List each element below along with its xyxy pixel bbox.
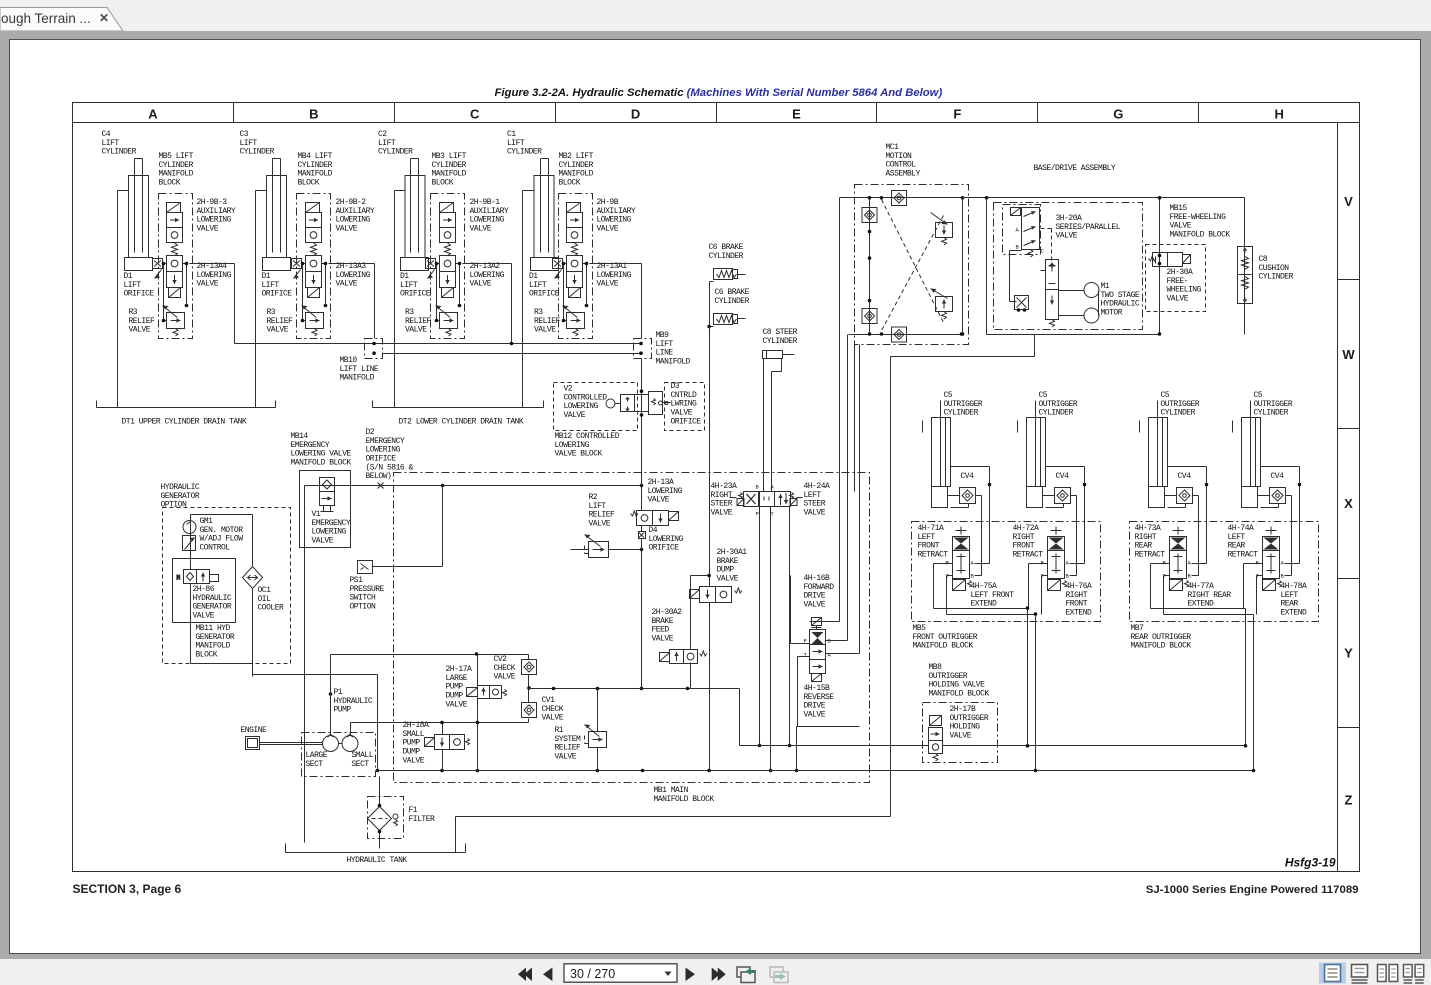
svg-text:VALVE: VALVE [950,732,972,741]
svg-text:LOWERING: LOWERING [336,271,371,280]
wire R1 drop [597,689,599,771]
svg-text:LIFT: LIFT [656,340,674,349]
svg-text:MANIFOLD BLOCK: MANIFOLD BLOCK [1170,231,1231,240]
svg-text:A: A [1016,227,1020,234]
svg-text:RELIEF: RELIEF [129,317,156,326]
wire generator loop [191,515,253,677]
svg-text:VALVE: VALVE [564,411,586,420]
valve 2H-13A4 (lowering) [167,256,183,298]
manifold block MB2 [559,194,593,339]
svg-text:GENERATOR: GENERATOR [196,633,235,642]
svg-text:M1: M1 [1101,282,1110,291]
svg-text:T: T [804,652,808,659]
svg-text:CYLINDER: CYLINDER [944,409,979,418]
wire manifold right rail [325,264,327,306]
svg-text:DUMP: DUMP [403,748,421,757]
svg-text:R1: R1 [555,726,564,735]
svg-text:CONTROLLED: CONTROLLED [564,393,608,402]
svg-text:4H-76A: 4H-76A [1066,582,1093,591]
svg-text:RIGHT: RIGHT [1135,533,1157,542]
wire 2H-13A2 output [463,263,512,265]
svg-text:V: V [1344,194,1353,209]
svg-text:A: A [828,652,832,659]
svg-text:D3: D3 [671,382,680,391]
wire drive return [891,198,1035,357]
svg-text:LIFT: LIFT [378,139,396,148]
svg-text:OIL: OIL [258,595,272,604]
check valve CV2 [522,660,537,675]
svg-text:PS1: PS1 [350,576,364,585]
outrigger cylinder C5 (4H-73A) [1140,401,1168,508]
svg-text:D1: D1 [529,272,538,281]
svg-text:MB1 MAIN: MB1 MAIN [654,786,689,795]
svg-text:LEFT: LEFT [1281,591,1299,600]
svg-text:B: B [1016,244,1020,251]
wire brake dump [691,576,710,771]
svg-text:MB4 LIFT: MB4 LIFT [298,152,333,161]
wire return header y770 [378,770,1254,772]
svg-text:CONTROL: CONTROL [200,544,231,553]
svg-text:2H-9B: 2H-9B [597,198,619,207]
svg-text:C1: C1 [507,130,516,139]
svg-text:BLOCK: BLOCK [432,179,454,188]
svg-text:MANIFOLD: MANIFOLD [559,170,594,179]
wire 2H-13A1 output [590,263,642,265]
svg-text:BELOW): BELOW) [366,472,392,481]
svg-text:CV4: CV4 [1056,472,1070,481]
svg-text:VALVE: VALVE [534,326,556,335]
wire pilot dashed [1041,229,1052,271]
svg-text:VALVE: VALVE [470,225,492,234]
valve 2H-17A large pump dump [467,686,507,699]
svg-text:ORIFICE: ORIFICE [262,290,293,299]
outrigger cylinder C5 (4H-71A) [923,401,951,508]
toolbar prev-page button [543,968,552,982]
hydraulic generator option box [163,508,291,664]
svg-text:RELIEF: RELIEF [534,317,561,326]
tank DT1 upper cylinder drain [97,401,276,408]
svg-text:LOWERING: LOWERING [470,216,505,225]
svg-text:A: A [148,107,158,122]
valve 2H-13A2 (lowering) [440,256,456,298]
valve 2H-18A small pump dump [425,735,470,750]
svg-text:MANIFOLD BLOCK: MANIFOLD BLOCK [654,795,715,804]
valve 4H-72A retract [1048,491,1067,591]
valve 2H-13A1 (lowering) [567,256,583,298]
svg-text:B: B [309,107,318,122]
svg-text:4H-73A: 4H-73A [1135,524,1162,533]
svg-text:FREE-WHEELING: FREE-WHEELING [1170,213,1227,222]
svg-text:BLOCK: BLOCK [559,179,581,188]
svg-text:EXTEND: EXTEND [1281,609,1308,618]
wire brake line [710,282,714,587]
svg-text:B: B [1188,573,1192,580]
svg-text:REAR: REAR [1135,542,1153,551]
wire manifold right rail [586,264,588,306]
svg-text:SECT: SECT [306,760,324,769]
valve 2H-9B-3 (auxiliary lowering) [167,203,183,256]
svg-text:2H-9B-1: 2H-9B-1 [470,198,501,207]
svg-text:VALVE: VALVE [589,520,611,529]
view mode facing [1378,965,1387,982]
svg-text:HYDRAULIC: HYDRAULIC [161,483,200,492]
svg-text:CV2: CV2 [494,655,508,664]
svg-text:OUTRIGGER: OUTRIGGER [1039,400,1078,409]
manifold block MB3 [431,194,465,339]
svg-text:ORIFICE: ORIFICE [529,290,560,299]
relief valve R2 lift [571,535,642,558]
svg-text:2H-17A: 2H-17A [446,665,473,674]
wire drive feeds [810,198,860,654]
view mode continuous [1352,965,1368,978]
svg-text:CYLINDER: CYLINDER [159,161,194,170]
svg-text:BRAKE: BRAKE [652,617,674,626]
svg-text:A: A [1188,560,1192,567]
manifold block MB5 [159,194,193,339]
svg-text:H: H [1275,107,1284,122]
wire outrigger cyl ports [1258,467,1300,576]
svg-text:RETRACT: RETRACT [918,551,949,560]
toolbar last-page button [712,968,726,982]
svg-text:VALVE: VALVE [555,753,577,762]
svg-text:T: T [771,511,775,518]
svg-text:HOLDING VALVE: HOLDING VALVE [929,681,986,690]
orifice D1 (C3) [292,259,302,279]
lift cylinder C4 [125,159,153,271]
svg-text:RELIEF: RELIEF [405,317,432,326]
svg-text:FEED: FEED [652,626,670,635]
svg-text:LOWERING: LOWERING [366,446,401,455]
relief valve R3 (MB3) [436,306,458,337]
svg-text:B: B [1281,573,1285,580]
svg-text:LOWERING: LOWERING [312,528,347,537]
wire cylinder C4 drain [118,191,129,408]
svg-text:RIGHT: RIGHT [1066,591,1088,600]
svg-text:LOWERING: LOWERING [197,216,232,225]
wire lift line through MB1 [641,473,643,689]
svg-text:B: B [756,484,760,491]
svg-text:DT1 UPPER CYLINDER DRAIN TANK: DT1 UPPER CYLINDER DRAIN TANK [122,418,247,427]
svg-text:LOWERING: LOWERING [597,216,632,225]
svg-text:Figure 3.2-2A. Hydraulic Sche: Figure 3.2-2A. Hydraulic Schematic (Mach… [495,87,943,99]
lift cylinder C1 [531,159,559,271]
svg-text:CYLINDER: CYLINDER [1254,409,1289,418]
svg-text:SJ-1000 Series Engine Powered: SJ-1000 Series Engine Powered 117089 [1146,884,1359,896]
svg-text:MOTION: MOTION [886,152,913,161]
svg-text:FRONT: FRONT [1013,542,1035,551]
svg-text:PRESSURE: PRESSURE [350,585,385,594]
motor M1 circle 2 [1084,308,1099,323]
outrigger cylinder C5 (4H-74A) [1233,401,1261,508]
svg-text:LOWERING: LOWERING [649,535,684,544]
svg-text:VALVE: VALVE [312,537,334,546]
svg-text:MB10: MB10 [340,356,358,365]
svg-text:F: F [953,107,961,122]
svg-text:2H-30A2: 2H-30A2 [652,608,683,617]
svg-text:VALVE BLOCK: VALVE BLOCK [555,450,603,459]
svg-text:VALVE: VALVE [1167,295,1189,304]
svg-text:HYDRAULIC: HYDRAULIC [334,697,373,706]
svg-text:VALVE: VALVE [446,700,468,709]
svg-text:4H-74A: 4H-74A [1228,524,1255,533]
svg-text:VALVE: VALVE [336,225,358,234]
svg-text:30 / 270: 30 / 270 [570,967,615,981]
manifold block MB4 [297,194,331,339]
svg-text:A: A [771,484,775,491]
svg-text:C3: C3 [240,130,249,139]
svg-text:EMERGENCY: EMERGENCY [366,437,405,446]
svg-text:VALVE: VALVE [197,280,219,289]
svg-text:CV4: CV4 [1271,472,1285,481]
svg-text:2H-30A: 2H-30A [1167,268,1194,277]
pump large section [323,735,339,752]
svg-text:CYLINDER: CYLINDER [763,337,798,346]
wire retract drains [1151,564,1207,615]
svg-text:C6 BRAKE: C6 BRAKE [709,243,744,252]
svg-text:LEFT: LEFT [918,533,936,542]
svg-text:C5: C5 [1039,391,1048,400]
svg-text:MB9: MB9 [656,331,670,340]
svg-text:BASE/DRIVE ASSEMBLY: BASE/DRIVE ASSEMBLY [1034,164,1116,173]
svg-text:2H-30A1: 2H-30A1 [717,548,748,557]
wire holding header y745 [740,745,1246,747]
svg-text:LIFT: LIFT [507,139,525,148]
pressure switch PS1 [358,486,443,574]
svg-text:VALVE: VALVE [711,509,733,518]
svg-text:MB5: MB5 [913,624,927,633]
svg-text:VALVE: VALVE [717,575,739,584]
toolbar first-page button [518,968,532,982]
manifold MB10 lift line [365,339,383,359]
oil cooler OC1 [243,567,263,589]
svg-text:OUTRIGGER: OUTRIGGER [1254,400,1293,409]
svg-text:2H-13A: 2H-13A [648,478,675,487]
svg-text:LEFT: LEFT [804,491,822,500]
svg-text:2H-9B-3: 2H-9B-3 [197,198,228,207]
valve 2H-30A2 brake feed [660,650,708,689]
valve 2H-30A free-wheeling [1146,245,1206,312]
svg-text:MANIFOLD BLOCK: MANIFOLD BLOCK [1131,642,1192,651]
svg-text:CYLINDER: CYLINDER [715,297,750,306]
svg-text:CUSHION: CUSHION [1259,264,1290,273]
svg-text:LIFT: LIFT [102,139,120,148]
svg-text:GENERATOR: GENERATOR [193,603,232,612]
svg-text:M: M [177,575,181,582]
svg-text:ORIFICE: ORIFICE [671,417,702,426]
svg-text:Hsfg3-19: Hsfg3-19 [1285,856,1336,870]
svg-text:LIFT: LIFT [240,139,258,148]
wire outrigger cyl ports [948,467,990,576]
svg-text:LIFT LINE: LIFT LINE [340,365,379,374]
toolbar next-page button [686,968,696,982]
svg-text:CYLINDER: CYLINDER [507,148,542,157]
svg-text:R3: R3 [267,308,276,317]
svg-text:VALVE: VALVE [193,612,215,621]
svg-text:C8: C8 [1259,255,1268,264]
svg-text:BRAKE: BRAKE [717,557,739,566]
svg-text:RETRACT: RETRACT [1135,551,1166,560]
svg-text:AUXILIARY: AUXILIARY [336,207,375,216]
svg-text:VALVE: VALVE [267,326,289,335]
svg-text:CYLINDER: CYLINDER [1259,273,1294,282]
relief valve R3 (MB4) [302,306,324,337]
svg-text:PUMP: PUMP [403,739,421,748]
svg-text:4H-23A: 4H-23A [711,482,738,491]
svg-text:OUTRIGGER: OUTRIGGER [950,714,989,723]
valve V2 controlled lowering [606,395,649,412]
svg-text:LIFT: LIFT [400,281,418,290]
svg-text:SMALL: SMALL [352,751,374,760]
svg-text:VALVE: VALVE [804,509,826,518]
svg-text:C: C [470,107,480,122]
svg-text:MB5 LIFT: MB5 LIFT [159,152,194,161]
svg-text:C5: C5 [1254,391,1263,400]
svg-text:LWRING: LWRING [671,400,698,409]
svg-text:R3: R3 [129,308,138,317]
svg-text:LIFT: LIFT [124,281,142,290]
wire orifice to valve [563,264,587,321]
svg-text:CYLINDER: CYLINDER [102,148,137,157]
wire pressure header [331,655,529,723]
wire outrigger cyl ports [1165,467,1207,576]
svg-text:VALVE: VALVE [652,635,674,644]
check valve CV1 [522,703,537,718]
svg-text:(S/N 5816 &: (S/N 5816 & [366,463,414,472]
svg-text:CV4: CV4 [1178,472,1192,481]
svg-text:C2: C2 [378,130,387,139]
svg-text:VALVE: VALVE [542,714,564,723]
check valve (MC1 top) [892,191,907,206]
svg-text:BLOCK: BLOCK [298,179,320,188]
svg-text:REAR: REAR [1228,542,1246,551]
cushion cylinder C8 [1238,247,1253,304]
svg-text:LOWERING: LOWERING [597,271,632,280]
wire lift trunk lower [383,353,642,355]
wire tank return [456,357,891,853]
svg-text:LOWERING: LOWERING [197,271,232,280]
svg-text:LOWERING: LOWERING [470,271,505,280]
svg-text:LOWERING: LOWERING [564,402,599,411]
brake cylinder C6 (upper) [714,269,746,280]
wire manifold left rail [163,264,165,321]
svg-text:LARGE: LARGE [446,674,468,683]
wire MC1 left rail [869,198,871,335]
wire main lift line (node at x641) [641,359,643,473]
svg-text:R3: R3 [534,308,543,317]
svg-text:DT2 LOWER CYLINDER DRAIN TANK: DT2 LOWER CYLINDER DRAIN TANK [399,418,524,427]
svg-text:RELIEF: RELIEF [589,511,616,520]
svg-text:CHECK: CHECK [494,664,516,673]
svg-text:MANIFOLD BLOCK: MANIFOLD BLOCK [929,690,990,699]
orifice D1 (C1) [553,259,563,279]
svg-text:EXTEND: EXTEND [1188,600,1215,609]
wire 2H-13A4 output [190,264,642,354]
svg-text:4H-78A: 4H-78A [1281,582,1308,591]
svg-text:SMALL: SMALL [403,730,425,739]
svg-text:SWITCH: SWITCH [350,594,377,603]
svg-text:STEER: STEER [711,500,733,509]
check valve CV4 (4H-71A) [960,488,976,504]
shuttle valve (drive) [1015,296,1029,310]
svg-text:HYDRAULIC: HYDRAULIC [1101,300,1140,309]
wire drive valve ports [791,576,860,771]
svg-text:B: B [1066,573,1070,580]
pump small section [342,735,358,752]
svg-text:LARGE: LARGE [306,751,328,760]
motion control assembly MC1 [855,185,969,345]
svg-text:MANIFOLD: MANIFOLD [196,642,231,651]
svg-text:CYLINDER: CYLINDER [298,161,333,170]
check valve CV4 (4H-72A) [1055,488,1071,504]
wire pump pressure lines [253,486,378,843]
manifold MB9 lift line [634,339,652,359]
svg-text:RETRACT: RETRACT [1228,551,1259,560]
valve 2H-17B outrigger holding [929,716,943,762]
svg-text:VALVE: VALVE [1056,232,1078,241]
svg-text:AUXILIARY: AUXILIARY [197,207,236,216]
wire retract drains [934,564,990,615]
svg-text:FILTER: FILTER [409,815,436,824]
svg-text:MANIFOLD: MANIFOLD [432,170,467,179]
valve drive directional [1046,260,1059,328]
wire top line to MB15 [963,197,1160,199]
wire MC1 bottom [849,334,963,336]
svg-text:VALVE: VALVE [405,326,427,335]
svg-text:W/ADJ FLOW: W/ADJ FLOW [200,535,244,544]
svg-text:A: A [1066,560,1070,567]
orifice D3 controlled lowering [665,383,705,431]
svg-text:C5: C5 [944,391,953,400]
valve V1 emergency lowering [300,471,351,548]
tank hydraulic [286,844,466,853]
svg-text:VALVE: VALVE [129,326,151,335]
svg-text:MB11 HYD: MB11 HYD [196,624,231,633]
wire orifice to valve [302,264,326,321]
svg-text:2H-17B: 2H-17B [950,705,977,714]
svg-text:3H-20A: 3H-20A [1056,214,1083,223]
svg-text:E: E [792,107,801,122]
svg-text:SECT: SECT [352,760,370,769]
toolbar next-view button (disabled) [770,967,788,983]
svg-text:MB2 LIFT: MB2 LIFT [559,152,594,161]
svg-text:D1: D1 [124,272,133,281]
valve 2H-86 hydraulic generator [177,570,219,584]
svg-text:FREE-: FREE- [1167,277,1189,286]
svg-text:2H-86: 2H-86 [193,585,215,594]
svg-text:CYLINDER: CYLINDER [240,148,275,157]
wire manifold right rail [186,264,188,306]
svg-text:F1: F1 [409,806,418,815]
valve 2H-9B-2 (auxiliary lowering) [306,203,322,256]
svg-text:CYLINDER: CYLINDER [432,161,467,170]
svg-text:VALVE: VALVE [597,280,619,289]
wire lift trunk upper [235,343,642,345]
svg-text:ORIFICE: ORIFICE [400,290,431,299]
relief valve (MC1 upper) [931,213,953,246]
valve 3H-20A series/parallel [1003,205,1041,255]
svg-text:CYLINDER: CYLINDER [1039,409,1074,418]
svg-text:RELIEF: RELIEF [555,744,582,753]
svg-text:OPTION: OPTION [161,501,188,510]
svg-text:Z: Z [1345,793,1353,808]
manifold MB7 rear outrigger [1130,522,1319,622]
svg-text:R2: R2 [589,493,598,502]
svg-text:BLOCK: BLOCK [159,179,181,188]
svg-text:4H-72A: 4H-72A [1013,524,1040,533]
wire steer cylinder lines [764,359,782,492]
wire motor connections [1010,251,1099,316]
valve block MB12 (controlled lowering) [554,383,638,431]
